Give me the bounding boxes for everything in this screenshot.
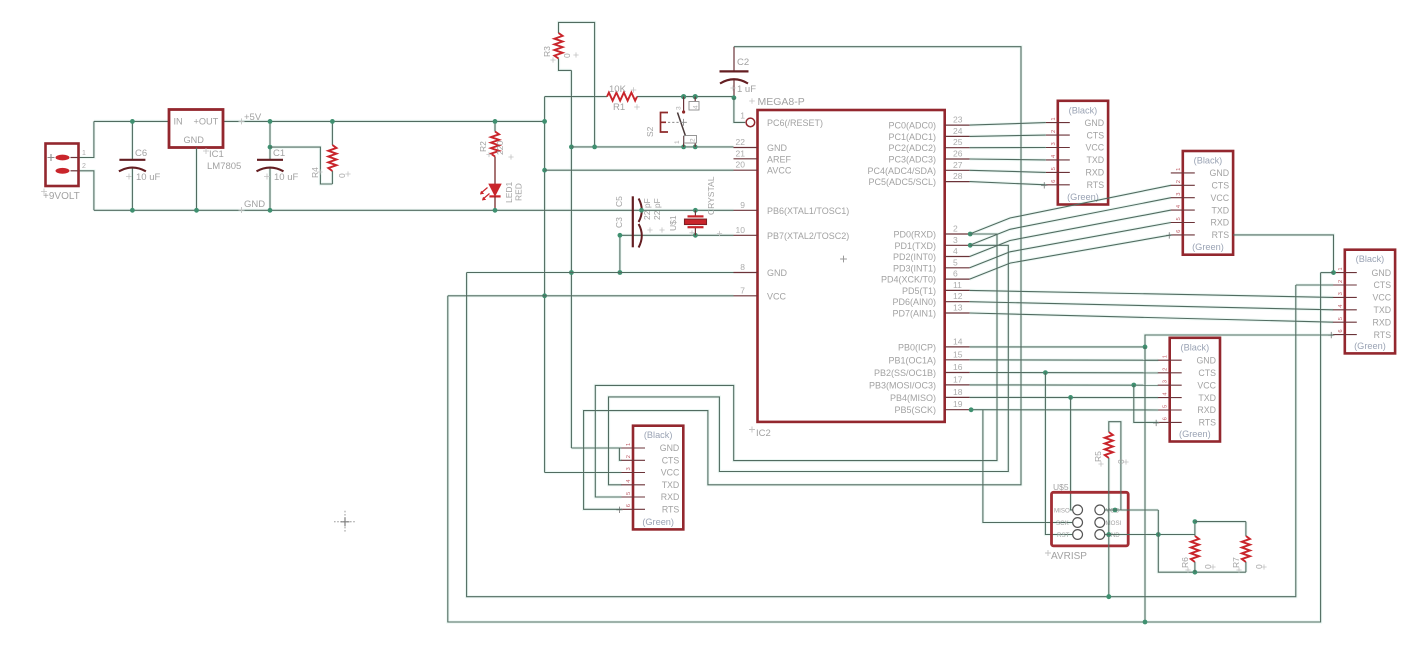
svg-text:SCK: SCK [1056,520,1070,527]
svg-text:1: 1 [626,443,632,446]
svg-text:PD7(AIN1): PD7(AIN1) [892,309,936,319]
svg-text:CTS: CTS [1373,280,1391,290]
svg-text:26: 26 [953,149,963,159]
IC2 MEGA8-P box [758,110,945,422]
serial connector SER2 [1183,151,1233,255]
svg-text:21: 21 [736,148,746,158]
wire R3 bottom long vertical to SER5 GND [570,70,572,448]
svg-text:2: 2 [690,138,697,142]
svg-text:18: 18 [953,387,963,397]
svg-text:AVRISP: AVRISP [1051,551,1087,562]
wire PD7 to SER3 RXD [970,313,1333,322]
wire PD1 net to SER5 TXD [609,245,1009,484]
wire PB3 to SER4 VCC [970,384,1158,386]
svg-text:R6: R6 [1180,557,1190,568]
svg-text:C2: C2 [737,57,749,68]
svg-text:RXD: RXD [1211,218,1230,228]
wire PD0 net to SER5 RXD [595,234,997,497]
svg-text:(Black): (Black) [1356,254,1385,264]
svg-text:3: 3 [1163,380,1169,383]
resistor R6 [1191,536,1199,562]
svg-text:RTS: RTS [1374,330,1392,340]
svg-text:GND: GND [1210,168,1230,178]
svg-text:RXD: RXD [1197,405,1216,415]
resistor R4 0 ohm [331,121,333,145]
svg-text:PD5(T1): PD5(T1) [902,286,936,296]
wire SER3 CTS to trunk [1296,284,1333,286]
svg-text:0: 0 [1203,564,1213,569]
svg-text:R4: R4 [310,167,320,178]
svg-text:PB0(ICP): PB0(ICP) [898,342,936,352]
wire AVRISP GND row to R6 [1105,534,1195,536]
pin1 inversion bubble [746,118,755,127]
svg-text:VCC: VCC [1197,380,1216,390]
svg-text:PC6(/RESET): PC6(/RESET) [767,118,823,128]
wire bottom GND rail / XTAL1 net [94,209,734,211]
svg-text:PC5(ADC5/SCL): PC5(ADC5/SCL) [868,177,936,187]
svg-text:GND: GND [660,443,680,453]
wire PB5 to SER4 RXD [970,409,1158,411]
capacitors C3 C5 22pF [632,196,634,247]
svg-text:27: 27 [953,160,963,170]
svg-text:1: 1 [740,111,745,121]
LED1 RED [489,184,500,195]
wire 9V pin2 down to bottom rail [78,171,94,211]
svg-text:LM7805: LM7805 [207,161,241,172]
svg-text:VCC: VCC [767,291,787,301]
svg-text:1: 1 [1163,355,1169,358]
bottom trunk junction dots [1106,594,1111,599]
svg-text:R1: R1 [613,102,625,113]
svg-text:RTS: RTS [662,505,680,515]
svg-text:PC1(ADC1): PC1(ADC1) [888,132,936,142]
svg-text:MEGA8-P: MEGA8-P [758,96,805,108]
svg-text:MISO: MISO [1054,508,1070,515]
svg-text:CTS: CTS [1198,368,1216,378]
svg-text:10K: 10K [609,84,627,95]
AVRISP header U$5 [1052,492,1129,546]
svg-text:(Green): (Green) [1192,242,1224,252]
svg-text:PC0(ADC0): PC0(ADC0) [888,121,936,131]
svg-text:RST: RST [1057,532,1070,539]
svg-text:0: 0 [562,53,572,58]
svg-text:15: 15 [953,349,963,359]
svg-text:VCC: VCC [1211,193,1230,203]
svg-text:CRYSTAL: CRYSTAL [706,176,716,215]
svg-text:PB1(OC1A): PB1(OC1A) [888,355,936,365]
svg-text:3: 3 [953,235,958,245]
svg-text:C3: C3 [614,217,624,228]
svg-text:IN: IN [174,117,183,127]
svg-text:1: 1 [82,150,86,157]
wire top +9V/+5V rail [94,120,169,122]
wire C2 bottom to chip pin1 [734,98,745,123]
svg-text:(Black): (Black) [1069,105,1098,115]
svg-text:16: 16 [953,362,963,372]
svg-text:6: 6 [626,504,632,507]
svg-text:5: 5 [1338,317,1344,320]
svg-text:20: 20 [736,160,746,170]
wire pin8 GND row [467,272,734,274]
svg-text:C6: C6 [135,148,147,159]
wire PB0 branch down trunk [1144,347,1146,622]
svg-text:PC2(ADC2): PC2(ADC2) [888,143,936,153]
svg-text:(Black): (Black) [1194,156,1223,166]
svg-text:PB2(SS/OC1B): PB2(SS/OC1B) [874,368,936,378]
resistor R1 10K [607,93,637,101]
svg-text:11: 11 [953,280,962,290]
svg-text:(Green): (Green) [1354,341,1386,351]
capacitor C6 10uF [131,121,133,159]
svg-text:PB3(MOSI/OC3): PB3(MOSI/OC3) [869,380,936,390]
svg-text:TXD: TXD [1373,305,1391,315]
wire SER4 GND stub link [1145,359,1158,361]
svg-text:1: 1 [674,140,681,144]
wire PB1 to SER4 GND [970,359,1158,361]
svg-text:TXD: TXD [1211,205,1229,215]
svg-text:24: 24 [953,126,963,136]
svg-text:2: 2 [82,163,86,170]
svg-text:IC2: IC2 [756,428,771,439]
svg-text:28: 28 [953,171,963,181]
svg-text:U$1: U$1 [668,215,678,231]
wire GND loop down left [467,273,1296,597]
wire pin10/XTAL2 row [620,234,734,236]
svg-text:TXD: TXD [1198,393,1216,403]
wire PB3 branch to SER4 RTS [1134,385,1158,422]
wire PB4 to SER4 TXD [970,396,1158,398]
wire VCC drop at 1158 [1157,510,1159,535]
svg-text:3: 3 [676,106,683,110]
svg-text:1: 1 [1176,168,1182,171]
wire VCC loop down left [448,273,1321,622]
svg-text:AREF: AREF [767,154,792,164]
svg-text:13: 13 [953,303,963,313]
wire pin7 VCC row [448,295,734,297]
svg-text:10 uF: 10 uF [136,172,160,183]
svg-text:5: 5 [953,257,958,267]
svg-text:2: 2 [1051,130,1057,133]
svg-text:MOSI: MOSI [1106,520,1122,527]
IC2 right pins [945,124,970,126]
svg-text:5: 5 [1176,217,1182,220]
resistor R5 [1105,432,1113,458]
svg-text:CTS: CTS [1211,181,1229,191]
svg-text:1: 1 [1338,267,1344,270]
wire C3C5 vertical [619,235,621,272]
svg-text:6: 6 [953,269,958,279]
svg-text:GND: GND [767,143,788,153]
resistor R2 220 [494,121,496,131]
svg-text:GND: GND [1372,268,1392,278]
svg-text:+5V: +5V [244,112,262,123]
svg-text:6: 6 [1051,180,1057,183]
svg-text:PC4(ADC4/SDA): PC4(ADC4/SDA) [867,166,936,176]
svg-text:2: 2 [953,224,958,234]
svg-text:0: 0 [1116,459,1126,464]
svg-text:C5: C5 [614,196,624,207]
wire PB2 to SER4 CTS [970,372,1158,374]
svg-text:C1: C1 [273,148,285,159]
wire reset row R1 [545,96,607,98]
svg-text:220: 220 [495,141,505,155]
svg-text:RTS: RTS [1212,230,1230,240]
wire riser 1158 to R6R7 bottom rail [1158,535,1246,573]
svg-text:R2: R2 [478,141,488,152]
svg-text:2: 2 [1176,180,1182,183]
svg-text:0: 0 [1254,564,1264,569]
svg-text:R3: R3 [542,46,552,57]
wire R6 top to R7 top [1195,521,1246,523]
svg-text:GND: GND [184,135,205,145]
switch S2 [681,94,686,99]
svg-text:R7: R7 [1231,557,1241,568]
svg-text:VCC: VCC [1086,143,1105,153]
svg-text:4: 4 [693,105,700,109]
svg-text:3: 3 [626,467,632,470]
resistor R7 [1242,536,1250,562]
svg-text:RXD: RXD [661,492,680,502]
resistor R3 pullup [559,22,595,146]
svg-text:GND: GND [1196,355,1216,365]
svg-text:VCC: VCC [1106,508,1120,515]
svg-text:TXD: TXD [1086,155,1104,165]
connector X1 +9VOLT [46,144,79,187]
svg-text:+OUT: +OUT [194,117,219,127]
svg-text:PB7(XTAL2/TOSC2): PB7(XTAL2/TOSC2) [767,231,849,241]
svg-text:PD0(RXD): PD0(RXD) [893,230,936,240]
svg-text:3: 3 [1338,292,1344,295]
svg-text:(Green): (Green) [1179,429,1211,439]
serial connector SER1 [1058,101,1108,205]
svg-text:25: 25 [953,137,963,147]
svg-text:RED: RED [514,183,524,201]
wire PB0 to SER3 RTS loop [970,335,1333,347]
svg-text:PD4(XCK/T0): PD4(XCK/T0) [881,275,936,285]
capacitor C2 1uF [733,47,735,72]
svg-text:CTS: CTS [1086,130,1104,140]
svg-text:7: 7 [740,285,745,295]
svg-text:PD6(AIN0): PD6(AIN0) [892,297,936,307]
svg-text:6: 6 [1176,230,1182,233]
svg-text:(Black): (Black) [644,430,673,440]
svg-text:9: 9 [740,200,745,210]
svg-text:12: 12 [953,291,963,301]
svg-text:GND: GND [244,199,265,210]
svg-text:VCC: VCC [661,468,680,478]
svg-text:CTS: CTS [662,456,680,466]
serial connector SER4 [1170,338,1220,442]
svg-text:5: 5 [626,492,632,495]
crystal U$1 [693,208,698,213]
wire C2/DTR net to SER5 RTS [584,47,1021,510]
wire AVRISP VCC to R5 [1105,509,1121,511]
svg-text:22 pF: 22 pF [652,198,662,220]
svg-text:1 uF: 1 uF [737,84,756,95]
svg-text:TXD: TXD [662,480,680,490]
svg-text:10 uF: 10 uF [274,172,298,183]
wire SER5 CTS jog to GND [619,448,621,460]
wire PB2 branch to AVRISP RST [1045,373,1072,535]
svg-text:2: 2 [626,455,632,458]
svg-text:5: 5 [1051,167,1057,170]
svg-text:PD3(INT1): PD3(INT1) [893,263,936,273]
svg-text:8: 8 [740,262,745,272]
wire +5V vertical at x=544.6 [544,97,546,473]
svg-text:U$5: U$5 [1053,482,1069,492]
svg-text:+9VOLT: +9VOLT [43,191,80,202]
wire +9V from connector pin1 up to top rail [78,121,94,157]
svg-text:10: 10 [736,225,746,235]
wire SER5 GND [571,447,621,449]
svg-text:RTS: RTS [1199,418,1217,428]
svg-text:R5: R5 [1093,451,1103,462]
svg-text:19: 19 [953,399,963,409]
svg-text:RTS: RTS [1087,180,1105,190]
svg-text:22: 22 [736,137,746,147]
svg-text:3: 3 [1051,142,1057,145]
wire C1 to R4 loop [270,147,332,184]
wire PB4 branch to AVRISP MISO [1071,397,1073,510]
svg-text:5: 5 [1163,405,1169,408]
svg-text:6: 6 [1338,329,1344,332]
svg-text:PD2(INT0): PD2(INT0) [893,252,936,262]
diagonal wires PD0-PD4 to SER2 [970,185,1171,234]
wire PD5 to SER3 VCC [970,290,1333,297]
svg-text:1: 1 [1051,117,1057,120]
wire PD6 to SER3 TXD [970,302,1333,310]
svg-text:3: 3 [1176,192,1182,195]
svg-text:4: 4 [953,246,958,256]
svg-text:VCC: VCC [1373,293,1392,303]
svg-text:PD1(TXD): PD1(TXD) [894,241,936,251]
serial connector SER3 [1345,250,1395,354]
lone origin cross [334,511,356,533]
svg-text:GND: GND [767,268,788,278]
wire SER2 RTS to SER3 GND [1233,235,1333,273]
svg-text:2: 2 [1338,280,1344,283]
svg-text:17: 17 [953,374,963,384]
wire GND row to pin22 [571,146,733,148]
wire PB5 branch to AVRISP SCK [983,410,1073,523]
svg-text:PB4(MISO): PB4(MISO) [890,393,936,403]
svg-text:PB5(SCK): PB5(SCK) [894,405,936,415]
svg-text:2: 2 [1163,368,1169,371]
capacitor C1 10uF [269,121,271,159]
wire SER3 GND to left corner [1321,272,1334,274]
svg-text:(Black): (Black) [1181,342,1210,352]
svg-text:IC1: IC1 [209,149,224,160]
wire SER5 VCC from +5V [545,472,622,474]
svg-text:S2: S2 [645,126,655,137]
svg-text:23: 23 [953,115,963,125]
wire AVCC row [545,169,734,171]
svg-text:RXD: RXD [1373,317,1392,327]
svg-text:GND: GND [1085,118,1105,128]
serial connector SER5 [633,426,683,530]
svg-text:PC3(ADC3): PC3(ADC3) [888,155,936,165]
svg-text:LED1: LED1 [504,181,514,203]
svg-text:14: 14 [953,336,963,346]
IC1 LM7805 regulator [169,110,223,148]
svg-text:AVCC: AVCC [767,166,792,176]
svg-text:PB6(XTAL1/TOSC1): PB6(XTAL1/TOSC1) [767,206,849,216]
svg-text:(Green): (Green) [642,517,674,527]
wires IC2 pins 23-28 to SER1 [970,123,1046,126]
svg-text:RXD: RXD [1086,168,1105,178]
svg-text:6: 6 [1163,417,1169,420]
